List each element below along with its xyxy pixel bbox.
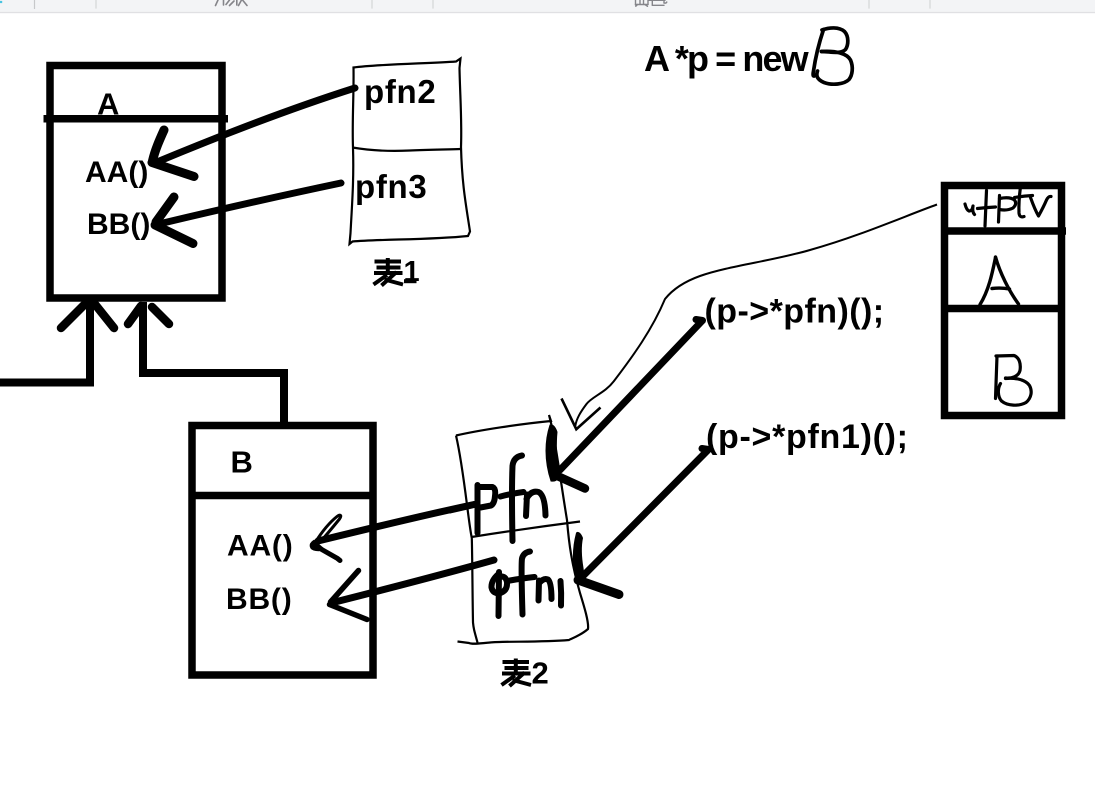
- 表2 divider: [472, 522, 581, 538]
- handwritten B (object): [996, 356, 1032, 406]
- toolbar ribbon background: [0, 0, 1095, 12]
- handwritten B after new: [813, 28, 852, 84]
- thin curve arrowhead V: [562, 399, 601, 430]
- arrow 表2 pfn1 to B::BB shaft: [333, 560, 494, 603]
- arrow 表2 pfn to B::AA head (loop flourish): [316, 515, 341, 542]
- toolbar separator 3: [371, 0, 373, 9]
- toolbar label fragment 颜色: [636, 0, 667, 6]
- svg-text:AA(): AA(): [227, 529, 294, 562]
- thin curve from object box to 表2: [575, 205, 937, 427]
- toolbar bottom border: [0, 12, 1095, 13]
- inheritance arrow right head: [128, 306, 169, 324]
- svg-text:BB(): BB(): [226, 583, 293, 616]
- arrow 表2 pfn1 to B::BB head: [330, 571, 368, 620]
- toolbar separator 4: [432, 0, 434, 9]
- svg-text:B: B: [231, 444, 253, 479]
- arrow 表2 pfn to B::AA shaft: [318, 505, 474, 542]
- inheritance arrow right shaft (elbow from B): [143, 302, 284, 425]
- handwritten Pfn: [478, 456, 546, 542]
- arrow (p->*pfn1)() head lower barb: [578, 580, 619, 595]
- toolbar cyan icon fragment: [0, 1, 2, 3]
- arrow (p->*pfn)() head lower barb: [553, 474, 585, 489]
- arrow pfn3 to A::BB shaft: [163, 183, 341, 223]
- 表1 divider: [353, 148, 462, 151]
- svg-text:AA(): AA(): [85, 156, 148, 189]
- arrow (p->*pfn)() head (thick blob barb): [546, 425, 559, 481]
- arrow 表2 pfn to B::AA head tip: [311, 542, 322, 550]
- toolbar separator 2: [95, 0, 97, 9]
- label 表2 (hand-drawn CJK 表): [502, 659, 532, 687]
- label 表1 (hand-drawn CJK 表): [374, 258, 404, 286]
- arrow (p->*pfn)() to 表2 shaft: [560, 320, 703, 471]
- object layout box (right): [945, 186, 1062, 416]
- arrow pfn3 to A::BB head: [155, 197, 193, 244]
- arrow (p->*pfn1)() head (thick crescent barb): [573, 532, 583, 579]
- vtable sheet 表1 outline: [350, 59, 471, 245]
- arrow pfn2 to A::AA shaft: [157, 88, 355, 162]
- handwritten A: [980, 257, 1019, 305]
- object layout divider 1 (vptr/A): [941, 227, 1066, 235]
- svg-text:(p->*pfn)();: (p->*pfn)();: [705, 292, 885, 330]
- toolbar separator 5: [868, 0, 870, 9]
- toolbar separator 6: [929, 0, 931, 9]
- class box B: [192, 426, 373, 676]
- toolbar label fragment 形状: [216, 0, 248, 6]
- class box A: [50, 66, 222, 299]
- class box A divider: [44, 115, 229, 123]
- svg-text:pfn2: pfn2: [364, 73, 436, 110]
- svg-text:A: A: [97, 87, 119, 122]
- handwritten vtptr: [965, 187, 1051, 227]
- class box B divider: [189, 492, 376, 500]
- arrow (p->*pfn1)() to 表2 shaft: [581, 449, 709, 579]
- svg-text:pfn3: pfn3: [355, 168, 427, 205]
- object layout divider 2 (A/B): [941, 305, 1062, 313]
- inheritance arrow left (from off-screen) shaft: [0, 302, 90, 383]
- toolbar separator 1: [34, 0, 36, 9]
- vtable sheet 表2 outline: [456, 415, 588, 644]
- svg-text:A *p = new: A *p = new: [644, 38, 810, 79]
- svg-text:2: 2: [532, 656, 549, 691]
- handwritten pfn1: [491, 552, 561, 617]
- inheritance arrow left head: [61, 301, 114, 328]
- arrow pfn2 to A::AA head: [152, 130, 194, 177]
- svg-text:BB(): BB(): [87, 208, 150, 241]
- svg-text:(p->*pfn1)();: (p->*pfn1)();: [706, 418, 909, 456]
